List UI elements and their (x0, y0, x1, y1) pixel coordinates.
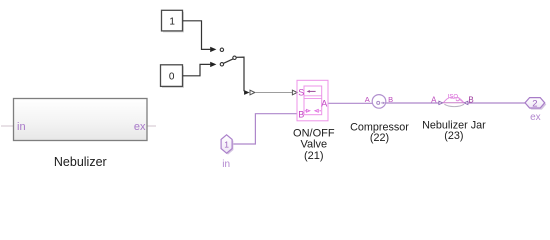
svg-text:(22): (22) (370, 132, 389, 144)
svg-text:0: 0 (169, 71, 175, 82)
svg-text:ex: ex (134, 121, 146, 133)
svg-text:(23): (23) (444, 130, 463, 142)
svg-text:in: in (222, 159, 230, 170)
svg-text:A: A (431, 95, 437, 104)
svg-text:B: B (468, 95, 473, 104)
svg-text:S: S (298, 88, 304, 98)
svg-text:A: A (365, 95, 370, 104)
svg-text:1: 1 (224, 139, 229, 149)
svg-text:in: in (17, 121, 26, 133)
svg-text:1: 1 (169, 16, 175, 27)
svg-text:ex: ex (530, 112, 541, 123)
svg-text:Nebulizer: Nebulizer (54, 155, 107, 169)
svg-text:Valve: Valve (300, 139, 327, 151)
svg-text:B: B (298, 110, 304, 120)
svg-text:(21): (21) (304, 150, 324, 162)
svg-text:ON/OFF: ON/OFF (293, 127, 335, 139)
svg-text:2: 2 (532, 98, 537, 109)
svg-text:A: A (321, 99, 327, 109)
svg-text:B: B (388, 95, 393, 104)
